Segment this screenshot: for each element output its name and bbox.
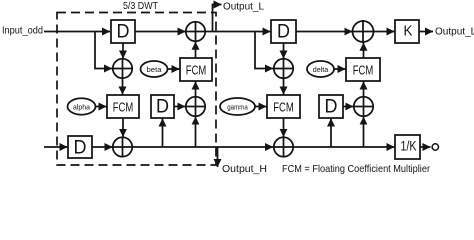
- output terminal circle: [432, 144, 438, 150]
- wire: delta to FCM: [334, 68, 346, 70]
- svg-text:delta: delta: [313, 65, 329, 74]
- wire: adder A6 down to FCM gamma: [283, 78, 285, 94]
- wire: tap up to delay D5: [330, 119, 332, 148]
- delay D5: [319, 95, 343, 118]
- adder A7: [354, 97, 373, 116]
- svg-text:Output_L.: Output_L.: [435, 26, 474, 38]
- svg-text:FCM = Floating Coefficient Mul: FCM = Floating Coefficient Multiplier: [282, 163, 430, 175]
- svg-text:D: D: [277, 22, 290, 43]
- svg-text:FCM: FCM: [186, 62, 207, 77]
- svg-text:K: K: [404, 24, 413, 40]
- svg-text:5/3 DWT: 5/3 DWT: [123, 0, 158, 12]
- coefficient gamma: [220, 98, 255, 115]
- FCM (alpha): [107, 95, 139, 118]
- wire: Output_L tap up and out: [213, 5, 222, 32]
- adder A8: [353, 21, 374, 42]
- wire: tap up to adder A7: [363, 117, 365, 147]
- wire: tap up to delay D3: [162, 119, 164, 148]
- FCM (gamma): [267, 95, 300, 118]
- adder A3: [113, 137, 132, 156]
- wire: FCM alpha to adder A3: [122, 118, 124, 137]
- FCM (delta): [346, 58, 380, 81]
- adder A6: [274, 59, 293, 78]
- svg-text:Input_odd: Input_odd: [2, 25, 43, 37]
- svg-text:FCM: FCM: [113, 99, 134, 114]
- delay D4: [68, 136, 92, 158]
- delay D1: [111, 20, 135, 43]
- wire: adder A3 along even line to adder A5: [132, 146, 273, 148]
- wire: Input_even to delay D4: [44, 146, 68, 148]
- svg-text:alpha: alpha: [73, 102, 91, 111]
- wire: beta to FCM: [168, 68, 180, 70]
- wire: branch down from input node: [95, 32, 112, 69]
- wire: D2 bottom to adder A6: [283, 43, 285, 59]
- svg-text:D: D: [117, 22, 130, 43]
- svg-text:FCM: FCM: [273, 99, 294, 114]
- svg-text:D: D: [156, 97, 169, 118]
- wire: alpha to FCM: [96, 106, 107, 108]
- coefficient alpha: [68, 98, 96, 114]
- wire: D5 to adder A7: [343, 106, 353, 108]
- wire: Output_H tap down: [217, 147, 219, 167]
- wire: gamma to FCM: [255, 106, 267, 108]
- svg-text:D: D: [325, 97, 338, 118]
- wire: D1 bottom to adder A2: [122, 43, 124, 59]
- gain K: [395, 20, 419, 43]
- wire: D4 to adder A3: [92, 146, 113, 148]
- wire: Input_odd to delay D1: [44, 31, 110, 33]
- FCM (beta): [180, 58, 212, 81]
- wire: adder A7 up to FCM delta: [363, 82, 365, 97]
- wire: adder A5 along even line to 1/K: [293, 146, 394, 148]
- svg-text:gamma: gamma: [227, 102, 248, 111]
- wire: FCM delta up to adder A8: [363, 43, 365, 58]
- wire: D3 to adder A4: [174, 106, 185, 108]
- wire: tap up to adder A4: [195, 117, 197, 147]
- adder A2: [113, 59, 132, 78]
- wire: D1 to adder A1: [135, 31, 186, 33]
- coefficient beta: [141, 61, 168, 77]
- svg-text:FCM: FCM: [353, 62, 374, 77]
- gain 1/K: [395, 135, 420, 159]
- svg-text:D: D: [74, 138, 87, 159]
- svg-text:Output_L: Output_L: [223, 1, 264, 13]
- wire: adder A2 to FCM alpha: [122, 78, 124, 94]
- adder A1: [186, 22, 205, 41]
- wire: FCM beta up to adder A1: [195, 42, 197, 58]
- dashed boundary box of 5/3 DWT stage: [57, 13, 216, 166]
- adder A5: [274, 137, 293, 156]
- svg-text:beta: beta: [147, 65, 163, 74]
- adder A4: [186, 97, 205, 116]
- wire: adder A1 to delay D2: [205, 31, 270, 33]
- wire: 1/K to output terminal: [420, 146, 431, 148]
- wire: adder A4 up to FCM beta: [195, 82, 197, 97]
- delay D3: [151, 95, 174, 118]
- wire: branch down from node before D2: [255, 32, 273, 69]
- wire: adder A8 to gain K: [374, 31, 395, 33]
- wire: D2 to adder A8: [296, 31, 352, 33]
- coefficient delta: [307, 61, 334, 77]
- wire: FCM gamma down to adder A5: [283, 118, 285, 137]
- delay D2: [271, 20, 296, 43]
- svg-text:Output_H: Output_H: [222, 163, 267, 175]
- wire: K to Output_L.: [419, 31, 433, 33]
- svg-text:1/K: 1/K: [401, 138, 418, 154]
